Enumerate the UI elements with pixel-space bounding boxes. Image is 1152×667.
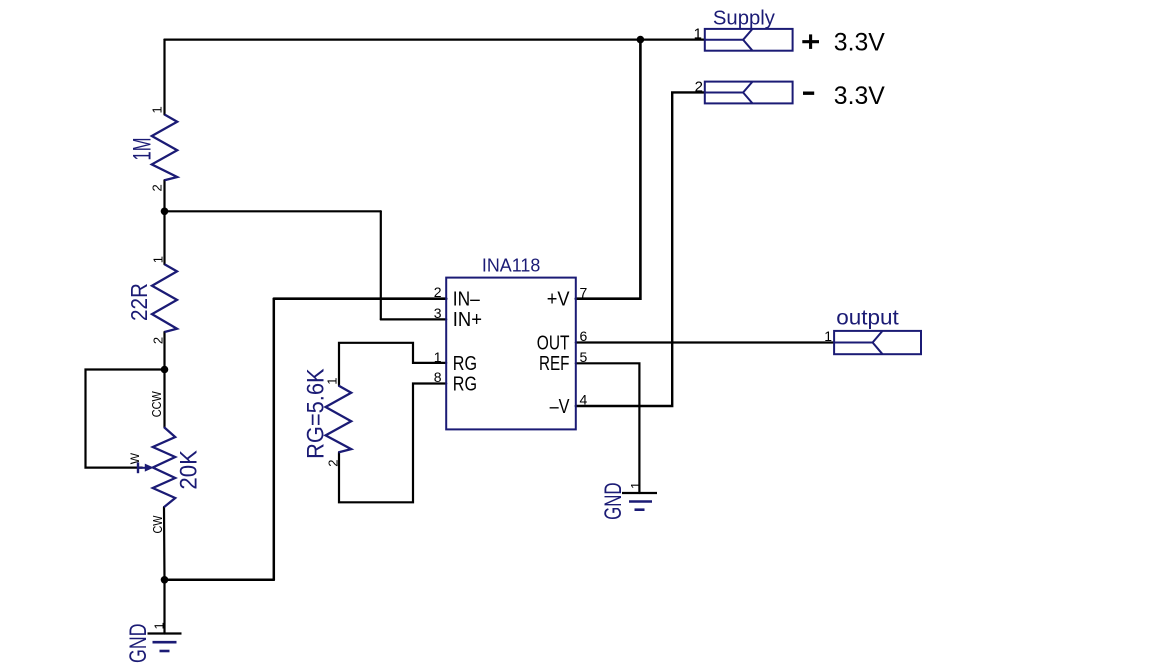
svg-text:output: output [836, 307, 899, 330]
wire IN+ vertical drop [380, 211, 382, 319]
svg-text:1: 1 [152, 622, 167, 629]
junction node B dot [161, 366, 169, 374]
wire IN- vertical riser [273, 299, 276, 580]
wire IN+ horizontal into pin 3 [381, 318, 446, 320]
resistor 22R body [152, 264, 177, 332]
potentiometer 20K body [153, 427, 175, 507]
junction supply node dot [637, 36, 645, 44]
ground symbol right [622, 493, 657, 510]
wire REF pin 5 down to GND [576, 363, 640, 493]
connector Supply pin 1 symbol [705, 29, 793, 51]
svg-text:RG: RG [453, 373, 477, 395]
net label + 3.3V [802, 34, 819, 49]
junction node C dot [161, 576, 169, 584]
wire -V pin 4 to supply pin 2 [576, 92, 705, 406]
svg-text:REF: REF [539, 353, 570, 375]
svg-text:22R: 22R [126, 283, 152, 321]
svg-text:6: 6 [580, 328, 588, 344]
svg-text:2: 2 [151, 337, 166, 344]
svg-text:1: 1 [434, 349, 442, 365]
ground symbol left [148, 634, 182, 652]
svg-text:1: 1 [149, 106, 164, 113]
svg-text:2: 2 [434, 284, 442, 300]
svg-text:5: 5 [580, 349, 588, 365]
svg-text:GND: GND [125, 624, 152, 664]
connector Supply pin 2 symbol [705, 82, 793, 104]
wires group [86, 40, 835, 634]
wire wiper bypass loop [86, 370, 165, 468]
resistor RG=5.6K body [326, 386, 352, 453]
wire node C horizontal right [165, 579, 274, 582]
svg-text:2: 2 [149, 184, 164, 191]
svg-text:1: 1 [325, 377, 340, 384]
svg-text:3.3V: 3.3V [834, 29, 885, 57]
svg-text:INA118: INA118 [482, 255, 540, 275]
resistor 1M body [152, 115, 177, 181]
svg-text:–V: –V [550, 396, 570, 418]
svg-text:4: 4 [580, 392, 588, 408]
svg-text:1: 1 [151, 256, 166, 263]
wire RG resistor pin2 to IC pin 8 [339, 384, 446, 503]
svg-text:+V: +V [547, 289, 570, 311]
svg-text:7: 7 [580, 284, 588, 300]
junction node A dot [161, 208, 169, 216]
svg-text:Supply: Supply [713, 7, 775, 29]
svg-text:3: 3 [434, 305, 442, 321]
svg-text:IN+: IN+ [453, 309, 482, 331]
svg-text:1: 1 [824, 328, 832, 344]
svg-text:RG: RG [453, 353, 477, 375]
svg-text:CW: CW [150, 515, 165, 534]
svg-text:1: 1 [694, 26, 702, 43]
wire 1M pin1 vertical [163, 40, 165, 115]
svg-text:20K: 20K [176, 450, 203, 490]
potentiometer 20K wiper arrow [138, 462, 153, 473]
svg-text:CCW: CCW [149, 391, 164, 418]
svg-text:2: 2 [326, 459, 341, 466]
svg-text:2: 2 [695, 78, 703, 95]
wire OUT pin 6 to output connector [576, 341, 834, 343]
net label - 3.3V [803, 91, 814, 94]
wire node A horizontal to IN+ branch [165, 210, 381, 212]
wire +V pin 7 up to supply node [576, 40, 641, 299]
wire RG resistor pin1 to IC pin 1 [339, 343, 446, 386]
wire pot CW down to node C [163, 507, 166, 580]
svg-text:1M: 1M [129, 138, 157, 161]
wire IN- horizontal into pin 2 [274, 297, 446, 300]
svg-text:IN–: IN– [453, 288, 481, 310]
wire 1M pin2 to 22R pin1 through node A [163, 180, 165, 264]
svg-text:W: W [128, 452, 142, 464]
op-amp U1 INA118 box [446, 278, 576, 430]
svg-text:8: 8 [434, 369, 442, 385]
svg-text:OUT: OUT [537, 332, 570, 354]
svg-text:GND: GND [600, 482, 627, 520]
wire 22R pin2 to pot CCW through node B [163, 332, 165, 427]
wire node C down to GND [163, 580, 165, 634]
connector output pin 1 symbol [834, 331, 921, 354]
svg-text:3.3V: 3.3V [834, 82, 885, 110]
wire top horizontal supply rail [165, 38, 705, 40]
svg-text:1: 1 [628, 482, 643, 489]
